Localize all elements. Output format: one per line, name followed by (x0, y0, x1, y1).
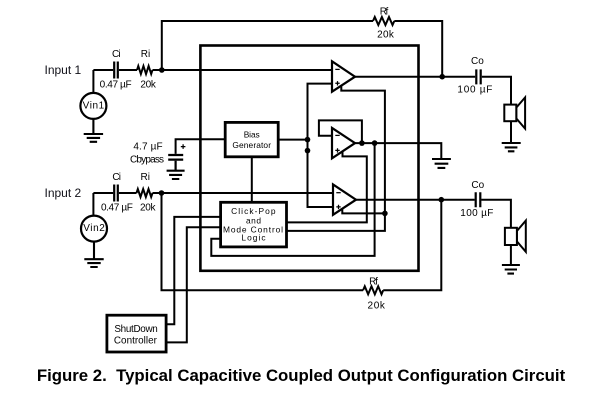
svg-text:Cbypass: Cbypass (130, 154, 164, 165)
svg-text:Ci: Ci (112, 172, 121, 183)
svg-text:20k: 20k (140, 79, 157, 90)
svg-text:Ci: Ci (112, 49, 121, 60)
svg-text:20k: 20k (368, 300, 386, 311)
svg-text:Co: Co (471, 180, 484, 191)
svg-text:Vin2: Vin2 (83, 223, 105, 234)
svg-text:Ri: Ri (140, 172, 149, 183)
svg-text:Rf: Rf (369, 276, 378, 287)
svg-text:100 µF: 100 µF (457, 84, 492, 95)
svg-text:ShutDown: ShutDown (114, 324, 157, 335)
svg-text:Input 2: Input 2 (45, 186, 82, 200)
svg-text:Ri: Ri (141, 49, 150, 60)
svg-text:0.47 µF: 0.47 µF (100, 79, 132, 90)
svg-text:20k: 20k (140, 203, 157, 214)
svg-text:Input 1: Input 1 (45, 63, 82, 77)
svg-text:Controller: Controller (114, 336, 158, 347)
svg-text:100 µF: 100 µF (460, 208, 493, 219)
svg-text:Logic: Logic (241, 233, 265, 243)
svg-text:Bias: Bias (244, 129, 260, 139)
svg-text:Co: Co (471, 56, 484, 67)
svg-text:4.7 µF: 4.7 µF (133, 141, 162, 152)
svg-text:Figure 2. Typical Capacitive: Figure 2. Typical Capacitive Coupled Out… (37, 366, 566, 385)
svg-text:Rf: Rf (380, 6, 389, 17)
svg-text:20k: 20k (377, 29, 395, 40)
svg-text:Vin1: Vin1 (83, 101, 105, 112)
svg-text:Generator: Generator (232, 140, 271, 150)
svg-text:0.47 µF: 0.47 µF (101, 203, 133, 214)
